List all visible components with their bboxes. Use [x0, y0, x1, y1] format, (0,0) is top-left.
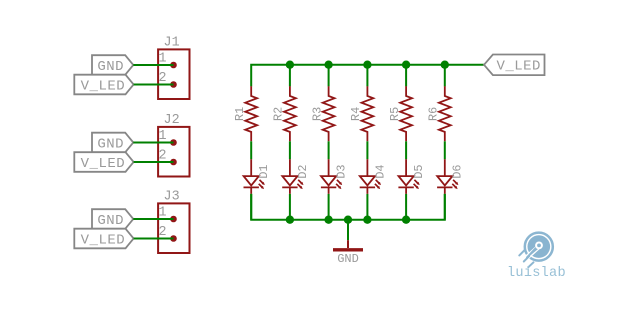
net flag V_LED right [484, 55, 545, 76]
LED D1 [244, 159, 272, 194]
svg-text:D1: D1 [257, 165, 271, 179]
svg-text:R3: R3 [310, 107, 324, 121]
junction on bottom rail at GND stem [344, 216, 352, 224]
wire D2 to bottom rail [289, 194, 291, 220]
LED D3 [321, 159, 349, 194]
wire GND flag to J2 pin 1 [133, 142, 173, 144]
junction on bottom rail at D5 [402, 216, 410, 224]
connector J2 [158, 113, 189, 176]
net flag GND at J3 pin 1 [92, 209, 133, 229]
junction on bottom rail at D4 [363, 216, 371, 224]
junction on top rail at R5 [402, 61, 410, 69]
svg-text:J1: J1 [164, 36, 180, 51]
ground symbol GND [333, 240, 363, 266]
junction on bottom rail at D3 [324, 216, 332, 224]
svg-text:D6: D6 [451, 165, 465, 179]
wire V_LED top rail [251, 65, 484, 87]
svg-text:R4: R4 [349, 107, 363, 121]
resistor R3 [310, 86, 334, 141]
svg-text:V_LED: V_LED [496, 59, 541, 75]
svg-text:R2: R2 [272, 107, 286, 121]
svg-text:R5: R5 [388, 107, 402, 121]
wire rail to R6 [444, 65, 446, 87]
pin 1 of J1 [158, 51, 176, 68]
svg-text:R1: R1 [233, 107, 247, 121]
junction on bottom rail at D2 [286, 216, 294, 224]
LED D2 [282, 159, 310, 194]
wire R1 to D1 [250, 141, 252, 159]
connector J1 [158, 36, 189, 99]
resistor R4 [349, 86, 373, 141]
resistor R2 [272, 86, 296, 141]
wire GND bottom rail [251, 194, 445, 220]
net flag V_LED at J1 pin 2 [74, 75, 133, 95]
pin 2 of J1 [158, 71, 176, 88]
wire GND flag to J1 pin 1 [133, 64, 173, 66]
junction on top rail at R2 [286, 61, 294, 69]
junction on top rail at R4 [363, 61, 371, 69]
luislab logo watermark [507, 233, 566, 281]
svg-text:D4: D4 [373, 165, 387, 179]
wire D1 to bottom rail [250, 194, 252, 220]
wire D4 to bottom rail [366, 194, 368, 220]
wire rail to R4 [366, 65, 368, 87]
resistor R1 [233, 86, 257, 141]
net flag V_LED at J3 pin 2 [74, 229, 133, 249]
pin 1 of J3 [158, 205, 176, 222]
pin 1 of J2 [158, 129, 176, 146]
resistor R6 [427, 86, 451, 141]
svg-text:luislab: luislab [507, 266, 566, 281]
resistor R5 [388, 86, 412, 141]
wire bottom rail to GND symbol [347, 220, 349, 241]
wire R6 to D6 [444, 141, 446, 159]
wire R4 to D4 [366, 141, 368, 159]
LED D5 [398, 159, 426, 194]
wire D3 to bottom rail [328, 194, 330, 220]
junction on top rail at R3 [324, 61, 332, 69]
svg-text:D3: D3 [335, 165, 349, 179]
wire D5 to bottom rail [405, 194, 407, 220]
svg-text:GND: GND [337, 252, 359, 266]
wire rail to R2 [289, 65, 291, 87]
wire rail to R3 [328, 65, 330, 87]
LED D4 [360, 159, 388, 194]
wire GND flag to J3 pin 1 [133, 218, 173, 220]
junction on top rail at R6 [441, 61, 449, 69]
pin 2 of J3 [158, 225, 176, 242]
svg-text:J2: J2 [164, 113, 180, 128]
wire R5 to D5 [405, 141, 407, 159]
LED D6 [437, 159, 465, 194]
svg-text:D2: D2 [296, 165, 310, 179]
net flag GND at J2 pin 1 [92, 133, 133, 153]
svg-text:R6: R6 [427, 107, 441, 121]
wire R2 to D2 [289, 141, 291, 159]
pin 2 of J2 [158, 148, 176, 165]
net flag V_LED at J2 pin 2 [74, 152, 133, 172]
svg-text:J3: J3 [164, 190, 180, 205]
wire V_LED flag to J3 pin 2 [134, 238, 174, 240]
svg-text:D5: D5 [412, 165, 426, 179]
wire V_LED flag to J1 pin 2 [134, 84, 174, 86]
wire D6 to bottom rail [444, 194, 446, 220]
wire rail to R5 [405, 65, 407, 87]
wire V_LED flag to J2 pin 2 [134, 161, 174, 163]
wire R3 to D3 [328, 141, 330, 159]
net flag GND at J1 pin 1 [92, 55, 133, 75]
connector J3 [158, 190, 189, 253]
